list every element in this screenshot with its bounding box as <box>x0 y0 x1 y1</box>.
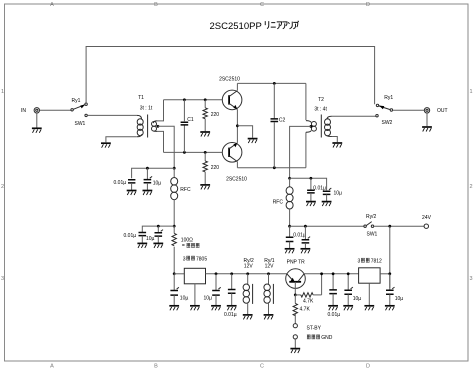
capacitor 0.01u rail2 <box>224 274 237 318</box>
wire SW1 to T1 primary <box>87 114 137 116</box>
ground cap rail4 <box>343 306 353 311</box>
ground OUT <box>422 127 432 132</box>
ground cap reg1 <box>169 306 179 311</box>
wire OUT shield stub <box>426 113 428 126</box>
svg-text:Ry1: Ry1 <box>72 98 81 104</box>
connector J2 OUT <box>424 108 447 114</box>
wire 24V feed down to 7812 <box>389 226 391 288</box>
wire supply to switch <box>290 225 364 227</box>
svg-text:2SC2510: 2SC2510 <box>226 177 247 183</box>
regulator U1 7805 <box>183 256 208 305</box>
ground cap rail3 <box>328 306 338 311</box>
svg-text:B: B <box>154 2 158 8</box>
node cap junction right2 <box>304 225 307 228</box>
capacitor 10u reg1 <box>170 274 188 305</box>
relay coil RY1 <box>264 258 275 314</box>
wire switch to 24V <box>374 225 424 227</box>
capacitor 0.01u right1 <box>307 178 326 201</box>
node relay coil Ry/2 junction <box>246 272 249 275</box>
node R2 top junction <box>204 151 207 154</box>
svg-text:3: 3 <box>469 276 472 282</box>
svg-text:220: 220 <box>211 165 220 171</box>
svg-text:12V: 12V <box>265 264 275 270</box>
capacitor bypass 0.01u left1 <box>114 180 136 190</box>
inductor RFC right <box>273 178 293 226</box>
ground cap right4 <box>301 249 311 254</box>
svg-text:IN: IN <box>21 108 26 114</box>
capacitor 10u right2 <box>302 226 310 248</box>
wire T1 primary bottom to ground <box>106 137 137 143</box>
wire bottom base rail <box>164 151 223 153</box>
capacitor 10u rail4 <box>344 274 361 305</box>
wire T2 primary bottom riser <box>305 132 307 167</box>
ground 7805 <box>190 306 200 311</box>
svg-text:C: C <box>260 2 264 8</box>
wire center tap to bias line <box>158 126 174 168</box>
ground cap left4 <box>153 243 163 248</box>
svg-text:PNP TR: PNP TR <box>287 260 306 266</box>
title 2SC2510PP linear amp <box>210 21 299 32</box>
svg-text:4.7K: 4.7K <box>300 307 311 313</box>
node emitter junction <box>236 124 239 127</box>
wire IN shield stub <box>36 113 38 128</box>
capacitor C1 <box>181 100 194 153</box>
svg-text:Ry1: Ry1 <box>384 95 393 101</box>
svg-text:24V: 24V <box>422 215 432 221</box>
node C1 bottom junction <box>183 151 186 154</box>
wire top base rail <box>164 99 223 101</box>
ground emitters <box>248 139 258 144</box>
svg-text:0.01µ: 0.01µ <box>313 185 326 191</box>
svg-text:7812: 7812 <box>371 259 382 265</box>
ground cap right2 <box>322 202 332 207</box>
ground R2 <box>200 185 210 190</box>
svg-text:C2: C2 <box>279 118 286 124</box>
wire collector top rail <box>237 82 306 84</box>
svg-text:=: = <box>182 243 185 249</box>
terminal 24V <box>422 215 432 228</box>
svg-text:3: 3 <box>358 259 361 265</box>
capacitor 10u right1 <box>323 188 342 201</box>
wire T2 primary top riser <box>305 83 307 120</box>
svg-text:0.01µ: 0.01µ <box>293 233 306 239</box>
node R1 top junction <box>204 98 207 101</box>
ground cap left1 <box>127 191 137 196</box>
capacitor 0.01u right2 <box>286 226 306 248</box>
relay RY1 output side contacts <box>376 95 394 126</box>
svg-text:3: 3 <box>1 276 4 282</box>
svg-text:2: 2 <box>1 184 4 190</box>
wire collector bottom rail <box>237 167 306 169</box>
ground cap right3 <box>285 249 295 254</box>
ground cap rail1 <box>211 306 221 311</box>
ground cap left3 <box>137 243 147 248</box>
svg-text:SW1: SW1 <box>75 121 86 127</box>
svg-text:10µ: 10µ <box>146 236 155 242</box>
svg-text:ST-BY: ST-BY <box>307 326 322 332</box>
node 7812 input junction <box>388 272 391 275</box>
switch SW1 relay Ry2 contact <box>364 214 378 238</box>
resistor R1 220 <box>203 100 219 132</box>
svg-text:10µ: 10µ <box>153 181 162 187</box>
svg-text:GND: GND <box>321 335 333 341</box>
node 24V feed junction <box>388 225 391 228</box>
wire 12V rail right of Q3 <box>304 273 358 275</box>
ground cap right1 <box>306 202 316 207</box>
resistor R3 100ohm <box>172 226 199 274</box>
svg-text:T2: T2 <box>318 97 324 103</box>
svg-text:3t : 4t: 3t : 4t <box>314 107 327 113</box>
node rail cap1 <box>215 272 218 275</box>
wire 7812 input <box>380 273 390 275</box>
transformer T1 <box>137 95 157 138</box>
node right supply junction 1 <box>288 177 291 180</box>
svg-text:2SC2510PP: 2SC2510PP <box>210 21 262 32</box>
svg-text:10µ: 10µ <box>334 191 343 197</box>
svg-text:0.01µ: 0.01µ <box>124 233 137 239</box>
svg-text:C1: C1 <box>187 117 194 123</box>
node rail cap4 <box>347 272 350 275</box>
svg-text:RFC: RFC <box>273 200 284 206</box>
node pullup rail junction <box>320 272 323 275</box>
ground T1 primary <box>101 143 111 148</box>
svg-text:SW2: SW2 <box>382 120 393 126</box>
capacitor C2 <box>271 83 286 167</box>
capacitor 0.01u left2 <box>124 233 147 243</box>
ground R1 <box>200 132 210 137</box>
svg-text:0.01µ: 0.01µ <box>224 312 237 318</box>
capacitor 10u input24 <box>386 274 403 305</box>
node rail cap2 <box>230 272 233 275</box>
regulator U2 7812 <box>358 258 383 305</box>
svg-text:7805: 7805 <box>196 257 207 263</box>
svg-text:B: B <box>154 364 158 368</box>
svg-text:10µ: 10µ <box>204 296 213 302</box>
svg-text:0.01µ: 0.01µ <box>328 312 341 318</box>
wire T1 secondary top riser to base rail <box>157 100 163 121</box>
svg-text:RFC: RFC <box>180 187 191 193</box>
ground 7812 <box>364 306 374 311</box>
svg-text:1: 1 <box>1 89 4 95</box>
node relay coil Ry/1 junction <box>267 272 270 275</box>
svg-text:10µ: 10µ <box>180 296 189 302</box>
relay RY1 input side contacts <box>71 98 87 127</box>
capacitor 10u left2 <box>146 226 163 243</box>
node cap junction left2 <box>157 225 160 228</box>
node C1 top junction <box>183 98 186 101</box>
svg-text:10µ: 10µ <box>353 296 362 302</box>
inductor RFC left <box>171 168 191 226</box>
node C2 bottom junction <box>273 166 276 169</box>
svg-text:12V: 12V <box>244 264 254 270</box>
svg-text:C: C <box>260 364 264 368</box>
capacitor 10u left1 <box>144 168 162 190</box>
transistor Q2 2SC2510 <box>222 126 247 183</box>
node cap junction right1 <box>310 177 313 180</box>
svg-text:D: D <box>366 364 370 368</box>
wire T1 secondary bottom riser <box>157 131 163 152</box>
svg-text:2: 2 <box>469 184 472 190</box>
svg-text:OUT: OUT <box>437 108 448 114</box>
svg-text:A: A <box>50 364 54 368</box>
wire left bypass branch 1 <box>132 168 175 178</box>
terminal TX GND <box>293 335 333 341</box>
wire emitter junction to ground <box>237 126 252 138</box>
ground relay coil Ry/1 <box>264 315 274 320</box>
ground cap input24 <box>385 306 395 311</box>
node base junction Q3 <box>294 294 297 297</box>
node rail cap3 <box>332 272 335 275</box>
wire T2 tap to supply line <box>290 126 311 177</box>
node 7805 input junction <box>173 272 176 275</box>
wire IN to relay <box>40 109 71 111</box>
svg-text:10µ: 10µ <box>395 296 404 302</box>
wire left bypass branch 2 <box>142 226 174 232</box>
node left bias junction 1 <box>173 167 176 170</box>
ground TX terminal <box>290 349 300 354</box>
resistor R2 220 <box>203 152 219 184</box>
wire 12V rail left <box>206 273 288 275</box>
ground cap left2 <box>143 191 153 196</box>
wire T2 secondary top to SW2 <box>332 115 376 117</box>
wire relay to OUT <box>393 109 425 111</box>
resistor R4 4.7K base pullup <box>295 274 321 305</box>
svg-text:4.7K: 4.7K <box>303 298 314 304</box>
transistor Q1 2SC2510 <box>219 77 242 126</box>
node T2 center tap <box>310 125 313 128</box>
wire junction to 7805 <box>174 273 184 275</box>
ground IN <box>32 128 42 133</box>
wire right bypass branch 1 <box>290 178 327 190</box>
wire T2 secondary bottom to ground <box>332 137 338 143</box>
node T1 center tap <box>157 125 160 128</box>
wire TX GND stub <box>294 339 296 348</box>
ground T2 secondary <box>332 143 342 148</box>
node cap junction left1 <box>146 167 149 170</box>
capacitor 0.01u rail3 <box>328 274 341 318</box>
svg-text:2SC2510: 2SC2510 <box>219 77 240 83</box>
svg-text:Ry/2: Ry/2 <box>366 214 377 220</box>
connector J1 IN <box>21 108 40 114</box>
relay coil RY2 <box>243 258 254 314</box>
node right supply junction 2 <box>288 225 291 228</box>
svg-text:3: 3 <box>183 257 186 263</box>
resistor R5 4.7K stby <box>293 295 310 324</box>
svg-text:D: D <box>366 2 370 8</box>
svg-text:A: A <box>50 2 54 8</box>
svg-text:220: 220 <box>211 112 220 118</box>
ground cap rail2 <box>227 306 237 311</box>
svg-text:3t : 1t: 3t : 1t <box>140 106 153 112</box>
svg-text:SW1: SW1 <box>367 232 378 238</box>
transformer T2 <box>306 97 332 138</box>
svg-text:0.01µ: 0.01µ <box>114 180 127 186</box>
terminal ST-BY <box>293 324 321 332</box>
wire bypass line relay to relay <box>86 47 375 105</box>
capacitor 10u rail1 <box>204 274 221 305</box>
ground relay coil Ry/2 <box>243 315 253 320</box>
svg-text:T1: T1 <box>138 95 144 101</box>
transistor Q3 PNP TR <box>286 260 306 295</box>
node C2 top junction <box>273 82 276 85</box>
svg-text:1: 1 <box>469 89 472 95</box>
node left bias junction 2 <box>173 225 176 228</box>
